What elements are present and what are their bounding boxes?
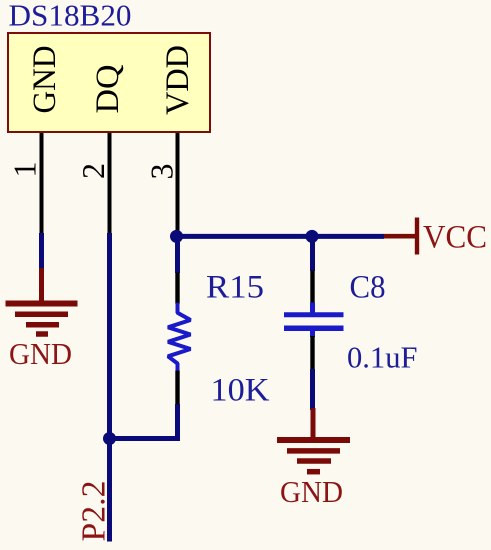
wire DQ net vertical (blue)	[107, 233, 112, 542]
svg-text:P2.2: P2.2	[76, 481, 113, 542]
svg-text:GND: GND	[27, 46, 63, 114]
svg-text:10K: 10K	[211, 373, 270, 409]
svg-text:DS18B20: DS18B20	[9, 0, 132, 33]
resistor value 10K	[211, 373, 270, 409]
pin 3 number 3	[144, 164, 180, 180]
wire horizontal DQ to resistor bottom (blue)	[110, 404, 178, 439]
wire VCC stub (dark red)	[384, 234, 416, 239]
ground symbol GND1	[6, 268, 78, 334]
resistor R15 bottom pin (black)	[175, 371, 179, 405]
junction dot at capacitor branch	[306, 230, 319, 243]
svg-text:GND: GND	[280, 474, 343, 509]
pin 3 name VDD	[160, 45, 196, 115]
capacitor C8 top pin (black)	[310, 271, 314, 304]
wire VDD horizontal net (blue)	[177, 234, 385, 239]
pin 1 name GND	[27, 46, 63, 114]
svg-text:GND: GND	[9, 336, 72, 371]
capacitor value 0.1uF	[347, 340, 418, 375]
junction dot at DQ / resistor wire	[103, 432, 116, 445]
resistor R15 top pin (black)	[175, 273, 179, 304]
svg-text:1: 1	[7, 162, 43, 178]
junction dot at VDD pin / resistor	[170, 230, 183, 243]
capacitor designator C8	[350, 269, 386, 305]
svg-text:VCC: VCC	[423, 220, 487, 256]
ground symbol GND2	[277, 408, 350, 472]
resistor R15 body (blue zigzag)	[168, 303, 191, 372]
pin 2 name DQ	[90, 64, 126, 113]
svg-text:3: 3	[144, 164, 180, 180]
svg-text:DQ: DQ	[90, 64, 126, 113]
pin 2 number 2	[75, 163, 111, 179]
power label VCC	[423, 220, 487, 256]
component body DS18B20 (yellow rectangle)	[8, 33, 210, 132]
pin 1 number 1	[7, 162, 43, 178]
pin 1 wire (black)	[40, 133, 44, 235]
svg-text:C8: C8	[350, 269, 386, 305]
net label P2.2	[76, 481, 113, 542]
wire pin1 to ground (blue)	[39, 233, 44, 270]
resistor designator R15	[206, 270, 264, 306]
ground label GND2	[280, 474, 343, 509]
capacitor C8 bottom pin (black)	[310, 336, 314, 370]
pin 2 wire (black)	[108, 133, 112, 235]
wire junction to capacitor top (blue)	[310, 236, 315, 271]
svg-text:VDD: VDD	[160, 45, 196, 115]
wire capacitor to ground (blue)	[310, 369, 315, 410]
wire junction to resistor top (blue)	[175, 236, 180, 273]
ground label GND1	[9, 336, 72, 371]
designator DS18B20	[9, 0, 132, 33]
pin 3 wire (black)	[176, 133, 180, 232]
svg-text:0.1uF: 0.1uF	[347, 340, 418, 375]
svg-text:2: 2	[75, 163, 111, 179]
power port VCC bar	[415, 218, 419, 255]
capacitor C8 body (blue plates)	[284, 303, 344, 338]
svg-text:R15: R15	[206, 270, 264, 306]
